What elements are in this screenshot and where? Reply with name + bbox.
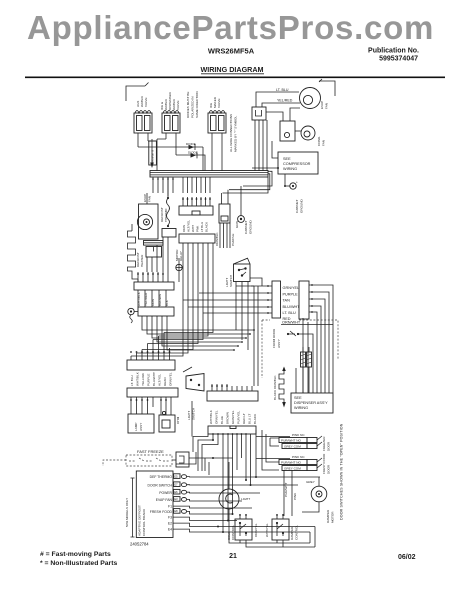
lamp assy box (128, 414, 154, 433)
svg-text:E6: E6 (174, 490, 178, 494)
board row e2 (168, 522, 315, 527)
svg-text:GRN/YEL: GRN/YEL (283, 286, 300, 290)
diode D1 (138, 142, 203, 171)
motor terminal strip (144, 241, 164, 246)
svg-text:24052784: 24052784 (130, 542, 149, 547)
svg-text:HEATER: HEATER (140, 254, 144, 267)
label damper motor (326, 509, 335, 523)
svg-text:WIRING DIAGRAM: WIRING DIAGRAM (200, 65, 263, 74)
svg-text:ASSY: ASSY (139, 423, 143, 431)
board row def-thermo (150, 474, 320, 479)
ground G4 (128, 308, 138, 323)
svg-text:BLU/WHT: BLU/WHT (152, 372, 156, 386)
svg-text:LIGHT: LIGHT (241, 497, 250, 501)
svg-text:WIRING: WIRING (283, 167, 297, 171)
see dispenser assy wiring box (291, 393, 333, 413)
board row evap-fan (156, 497, 242, 502)
label cold control (227, 525, 235, 540)
connector bar B2 (left pair lower) (127, 388, 178, 415)
label valve V1 (136, 95, 148, 107)
svg-text:DOOR: DOOR (327, 464, 331, 474)
fresh food door ajar switch rows (279, 455, 322, 471)
svg-text:DOOR SWITCHES SHOWN IN THE "OP: DOOR SWITCHES SHOWN IN THE "OPEN" POSITI… (340, 423, 344, 520)
label damper control (290, 525, 299, 540)
door light switch S1 (234, 258, 251, 281)
svg-text:WRS26MF5A: WRS26MF5A (208, 47, 255, 56)
corner bracket top-left (126, 83, 149, 102)
svg-text:FRESH FOOD: FRESH FOOD (150, 510, 173, 514)
svg-text:PURPLE: PURPLE (283, 292, 299, 296)
board row f3 (168, 516, 237, 521)
diode D2 (157, 139, 205, 171)
svg-text:F1: F1 (168, 505, 172, 509)
svg-text:MARKED BY "*" SYMBOL: MARKED BY "*" SYMBOL (234, 116, 238, 152)
light switch S2 (183, 367, 204, 391)
svg-text:CONTROL: CONTROL (295, 525, 299, 540)
board row door-switch (148, 482, 299, 487)
stack feed wires (183, 285, 272, 314)
label valve V3 (209, 96, 221, 108)
svg-text:MOTOR: MOTOR (331, 511, 335, 523)
svg-text:DAMPER: DAMPER (326, 509, 330, 523)
svg-text:GROUND: GROUND (300, 198, 304, 213)
wire labels between controls (254, 523, 269, 537)
svg-text:RELAY: RELAY (179, 251, 183, 261)
svg-text:BLACK: BLACK (205, 221, 209, 232)
crenellated door boundary (279, 367, 286, 408)
svg-text:POLARIZED IN: POLARIZED IN (191, 97, 195, 119)
label fresh food door switch (322, 453, 331, 474)
wires to door ajar switches (256, 430, 290, 477)
svg-text:ORN/YEL: ORN/YEL (215, 410, 219, 424)
svg-text:WHT/BLK: WHT/BLK (209, 409, 213, 424)
mullion heater H2 (307, 347, 312, 367)
solenoid valve V2 (water dispenser valve) (162, 111, 180, 156)
ground G3 (176, 258, 183, 282)
svg-text:YELLOW: YELLOW (141, 373, 145, 386)
connector C1 (179, 177, 213, 215)
label defrost thermostat (160, 207, 168, 222)
svg-text:WHT: WHT (191, 225, 195, 232)
svg-text:ORN/BLK: ORN/BLK (215, 231, 219, 246)
door harness connector left (272, 281, 281, 318)
connector C3 (132, 237, 174, 290)
top rule (25, 76, 445, 78)
defrost thermostat (167, 177, 170, 227)
svg-text:VALVE: VALVE (176, 100, 180, 110)
door switch in dashed box (287, 331, 299, 336)
harness fan-out from C4 (142, 316, 255, 351)
label light switch (187, 408, 196, 420)
svg-text:EVAP: EVAP (143, 194, 147, 202)
svg-text:DOOR SWITCH: DOOR SWITCH (148, 483, 173, 487)
bus drop wires left (152, 177, 174, 196)
connector block J2 (172, 452, 233, 467)
wires below S1 (236, 278, 262, 386)
svg-text:PINK NC: PINK NC (292, 433, 305, 437)
svg-text:CABINET: CABINET (295, 199, 299, 213)
cabinet ground G2 (235, 186, 244, 228)
svg-text:PUR/YEL: PUR/YEL (237, 410, 241, 424)
svg-text:PUR/WHT NO: PUR/WHT NO (281, 461, 301, 465)
svg-text:50% MODELS ONLY: 50% MODELS ONLY (125, 498, 129, 527)
svg-text:FROM DOOR: FROM DOOR (272, 328, 276, 348)
label from door assy (272, 328, 281, 348)
label evap fan left (143, 194, 152, 202)
svg-text:PURPLE: PURPLE (231, 234, 235, 246)
svg-text:LT. BLU: LT. BLU (276, 88, 289, 92)
connector C4 (138, 290, 174, 316)
light bulb (219, 462, 250, 509)
board row e4 (168, 528, 310, 533)
svg-text:E7: E7 (174, 483, 178, 487)
see compressor wiring box (252, 141, 318, 174)
svg-text:AppliancePartsPros.com: AppliancePartsPros.com (27, 9, 434, 46)
cabinet ground G1 (284, 174, 298, 189)
connector bar B4 (right pair lower) (193, 426, 256, 532)
labels connector C1 (182, 220, 209, 232)
corner bracket top-right (319, 79, 335, 96)
harness fan-out right (297, 285, 333, 393)
svg-text:E4: E4 (168, 528, 172, 532)
damper motor (302, 477, 327, 512)
svg-text:DISPENSER ASS'Y: DISPENSER ASS'Y (294, 401, 328, 405)
svg-text:POWER: POWER (159, 491, 172, 495)
label wire colors column (273, 374, 277, 400)
svg-text:FAN: FAN (148, 196, 152, 202)
svg-text:BLU/WHT: BLU/WHT (283, 305, 301, 309)
svg-text:DIODE: DIODE (188, 151, 198, 155)
svg-text:FAST FREEZE: FAST FREEZE (137, 449, 164, 454)
fast freeze dashed switch (103, 449, 172, 466)
note all wire connections (229, 114, 238, 152)
start relay box (146, 247, 162, 258)
wire yel/red (262, 99, 300, 107)
svg-text:FAN: FAN (322, 140, 326, 146)
note diodes polarized (186, 91, 199, 118)
condenser fan motor (301, 126, 315, 140)
svg-text:DIODES MUST BE: DIODES MUST BE (186, 92, 190, 118)
freezer door ajar switch rows (279, 433, 322, 449)
connector bar B3 (right pair upper) (207, 384, 258, 401)
svg-text:VALVE: VALVE (144, 97, 148, 107)
svg-text:RED LT: RED LT (242, 413, 246, 424)
timer component K1 (219, 190, 230, 223)
drops from J1 (255, 120, 267, 171)
wire label pur/wht (284, 470, 288, 516)
label valve V2 (160, 91, 180, 110)
bottom harness wires (229, 509, 315, 547)
evap fan motor (top) (300, 88, 321, 109)
dashed door assy boundary (262, 320, 338, 378)
svg-text:PURPLE: PURPLE (147, 374, 151, 386)
adaptive defrost control board (136, 471, 173, 538)
board row power (159, 489, 260, 494)
svg-text:CABINET: CABINET (244, 220, 248, 234)
svg-text:BRN/WHT: BRN/WHT (151, 149, 155, 164)
svg-text:E5: E5 (174, 474, 178, 478)
defrost heater (128, 224, 136, 277)
svg-text:ORN/YEL: ORN/YEL (254, 523, 258, 537)
svg-text:SWITCH: SWITCH (229, 275, 233, 287)
svg-text:PUR/WHT NO: PUR/WHT NO (281, 439, 301, 443)
solenoid valve V3 (ice maker valve) (208, 111, 226, 172)
board row fresh-food (150, 509, 232, 514)
left feeder wires to board (176, 401, 196, 464)
wire lt.blu (256, 88, 299, 107)
svg-text:DOOR: DOOR (327, 441, 331, 451)
svg-text:ASS'Y: ASS'Y (277, 339, 281, 348)
tall connector C5 (299, 281, 313, 319)
svg-text:COMPRESSOR: COMPRESSOR (283, 162, 311, 166)
wire label pink (292, 470, 297, 516)
svg-text:LIGHT: LIGHT (187, 411, 191, 420)
main harness bus (150, 171, 272, 194)
svg-text:EVAP FAN: EVAP FAN (156, 498, 173, 502)
svg-text:ALT/YEL: ALT/YEL (158, 374, 162, 386)
svg-text:ALL WIRE CONNECTIONS: ALL WIRE CONNECTIONS (229, 114, 233, 152)
svg-text:ORN/YEL: ORN/YEL (169, 372, 173, 386)
svg-text:COND.: COND. (317, 136, 321, 146)
label cabinet ground G2 (244, 219, 253, 234)
svg-text:GRN/YEL: GRN/YEL (231, 410, 235, 424)
svg-text:LT. BLU: LT. BLU (283, 311, 296, 315)
svg-text:YEL/RED: YEL/RED (277, 99, 293, 103)
svg-text:GREY COM: GREY COM (284, 445, 301, 449)
label light switch S1 (225, 275, 233, 287)
evap fan housing (139, 204, 159, 239)
label cabinet ground G1 (295, 198, 304, 213)
svg-text:# = Fast-moving Parts: # = Fast-moving Parts (40, 551, 111, 558)
svg-text:WHT/BLK: WHT/BLK (136, 371, 140, 386)
labels between right bars (209, 409, 257, 424)
connector block J1 (252, 107, 266, 120)
svg-text:THERMO: THERMO (164, 208, 168, 222)
svg-text:BLACK ORN/BLK: BLACK ORN/BLK (273, 374, 277, 400)
svg-text:F3: F3 (168, 516, 172, 520)
svg-text:FRESH FOOD: FRESH FOOD (322, 453, 326, 474)
wires into dispenser box (296, 367, 309, 393)
junction bus above light (205, 439, 257, 533)
evap fan motor (left) (137, 193, 152, 230)
svg-text:READ: READ (163, 377, 167, 386)
svg-text:EVAP: EVAP (320, 101, 324, 109)
svg-text:PINK: PINK (293, 492, 297, 500)
svg-text:E8: E8 (174, 509, 178, 513)
svg-text:SAME DIRECTION: SAME DIRECTION (195, 91, 199, 118)
svg-text:TAN: TAN (283, 299, 291, 303)
svg-text:BLACK: BLACK (253, 413, 257, 424)
wire label brn/wht with arrow (148, 139, 157, 168)
damper control CC2 (272, 514, 289, 540)
label motor relay (175, 249, 183, 261)
svg-text:LT. BLU: LT. BLU (130, 375, 134, 386)
svg-text:CONTROL: CONTROL (231, 525, 235, 540)
svg-text:ORN/WHT: ORN/WHT (282, 320, 301, 324)
svg-text:ADAPTIVE DEFROST: ADAPTIVE DEFROST (138, 505, 142, 536)
svg-text:GRN: GRN (235, 221, 239, 228)
labels between left bars (130, 371, 173, 386)
label some models only (125, 478, 135, 537)
label evap fan (320, 101, 329, 109)
svg-text:CONTROL BOARD: CONTROL BOARD (142, 508, 146, 536)
svg-text:BLU LT: BLU LT (248, 414, 252, 424)
label switches shown note (340, 423, 344, 520)
connector C2 (131, 234, 215, 356)
board row f1 (168, 505, 252, 509)
svg-text:PUR/WHT: PUR/WHT (284, 482, 288, 497)
purple bundle below K1 (215, 223, 235, 248)
svg-text:5995374047: 5995374047 (379, 56, 418, 63)
svg-text:E2: E2 (168, 522, 172, 526)
svg-text:SEE: SEE (283, 157, 291, 161)
svg-text:*: * (296, 180, 298, 185)
svg-text:GREY: GREY (306, 480, 315, 484)
mullion heater H1 (301, 347, 306, 367)
relay box (266, 108, 301, 141)
svg-text:WHT/YEL: WHT/YEL (265, 523, 269, 537)
svg-text:LAMP: LAMP (134, 423, 138, 431)
svg-text:DIODE: DIODE (186, 142, 196, 146)
svg-text:WIRING: WIRING (294, 406, 308, 410)
svg-text:PINK NC: PINK NC (292, 455, 305, 459)
labels connector C3 (137, 291, 169, 306)
label defrost heater (136, 252, 144, 267)
label cond fan (317, 136, 326, 146)
cold control CC1 (235, 514, 252, 540)
svg-text:FREEZER: FREEZER (322, 436, 326, 451)
svg-text:21: 21 (229, 553, 237, 560)
thermostat connector (162, 229, 176, 238)
svg-text:GREY COM: GREY COM (284, 467, 301, 471)
wire labels between connectors (281, 286, 333, 324)
svg-text:ORN: ORN (182, 225, 186, 232)
thermistor box (159, 411, 180, 432)
svg-text:PNK: PNK (196, 225, 200, 232)
svg-text:LT BLU: LT BLU (200, 222, 204, 232)
svg-text:SEE: SEE (294, 396, 302, 400)
svg-text:VALVE: VALVE (217, 98, 221, 108)
solenoid valve V1 (aux water valve) (134, 111, 152, 148)
svg-text:* = Non-Illustrated Parts: * = Non-Illustrated Parts (40, 560, 117, 567)
svg-text:FAN: FAN (325, 103, 329, 109)
svg-text:06/02: 06/02 (398, 554, 416, 561)
label freezer door switch (322, 436, 331, 451)
svg-text:DAMPER: DAMPER (290, 526, 294, 540)
svg-text:ALT/YEL: ALT/YEL (187, 220, 191, 232)
svg-text:OHM: OHM (176, 416, 180, 424)
svg-text:Publication No.: Publication No. (368, 48, 419, 55)
svg-text:GROUND: GROUND (249, 219, 253, 234)
svg-text:DEF THERMO: DEF THERMO (150, 475, 173, 479)
svg-text:E3: E3 (174, 497, 178, 501)
svg-text:BLUE: BLUE (220, 416, 224, 424)
connector bar B1 (left pair upper) (127, 333, 175, 371)
svg-text:BROWN: BROWN (226, 412, 230, 424)
